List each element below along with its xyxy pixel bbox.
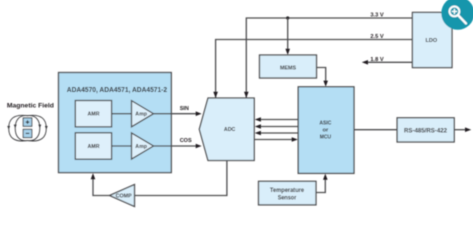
wire 2.5V rail (216, 40, 412, 99)
svg-text:MCU: MCU (320, 134, 331, 140)
wire COS: Amp2 to ADC (154, 145, 197, 147)
wire 1.8V output (367, 61, 412, 63)
block LDO (412, 12, 452, 67)
svg-text:SIN: SIN (180, 106, 189, 112)
wire AMR2 to Amp2 (112, 145, 132, 147)
svg-text:Amp: Amp (135, 144, 147, 150)
svg-text:RS-485/RS-422: RS-485/RS-422 (404, 128, 447, 135)
svg-text:3.3 V: 3.3 V (370, 13, 383, 19)
svg-text:COS: COS (180, 138, 192, 144)
svg-text:COMP: COMP (116, 193, 133, 199)
wire ADC data to ASIC (254, 139, 293, 141)
wire ASIC to ADC control 1 (259, 119, 298, 121)
wire 3.3V rail (246, 18, 412, 98)
svg-text:2.5 V: 2.5 V (370, 34, 383, 40)
wire SIN: Amp1 to ADC (154, 113, 197, 115)
block ADC (pentagon) (199, 98, 254, 161)
wire ASIC to ADC control 2 (259, 126, 298, 128)
wire AMR1 to Amp1 (112, 113, 132, 115)
zoom icon button (441, 0, 473, 30)
svg-text:ADA4570, ADA4571, ADA4571-2: ADA4570, ADA4571, ADA4571-2 (67, 85, 167, 94)
svg-text:1.8 V: 1.8 V (370, 57, 383, 63)
wire MEMS to ASIC (317, 68, 326, 82)
block Temperature Sensor (259, 181, 317, 205)
magnet field lines (9, 115, 47, 141)
block RS-485/RS-422 (397, 118, 454, 142)
magnet south pole square (23, 129, 32, 137)
svg-text:Magnetic Field: Magnetic Field (7, 102, 54, 109)
svg-text:AMR: AMR (88, 112, 100, 118)
block AMR 2 (75, 133, 111, 159)
magnet minus sign (26, 132, 30, 134)
svg-text:ASIC: ASIC (319, 120, 332, 126)
wire junction to MEMS (287, 18, 289, 50)
block MEMS (260, 55, 317, 78)
svg-text:MEMS: MEMS (280, 66, 296, 72)
block ADA4570/ADA4571 container (59, 73, 172, 173)
wire ASIC to ADC control 3 (259, 132, 298, 134)
comparator COMP (110, 185, 135, 207)
op-amp Amp 1 (132, 101, 154, 127)
svg-text:ADC: ADC (224, 127, 235, 133)
wire Temperature Sensor to ASIC (316, 179, 325, 193)
op-amp Amp 2 (132, 133, 154, 159)
svg-text:LDO: LDO (426, 38, 438, 44)
wire ASIC to RS-485 (354, 129, 397, 131)
svg-text:Temperature: Temperature (270, 187, 305, 194)
magnet north pole square (23, 118, 32, 126)
wire RS-485 output (454, 129, 466, 131)
node junction on 3.3V rail (286, 16, 289, 19)
magnet plus sign (26, 120, 30, 124)
wire ADC to COMP (135, 161, 227, 196)
block ASIC or MCU (298, 87, 354, 174)
svg-text:Amp: Amp (135, 112, 147, 118)
wire COMP to ADA container (93, 178, 110, 195)
svg-text:Sensor: Sensor (278, 195, 297, 202)
magnet field arrows (7, 125, 48, 130)
svg-text:AMR: AMR (88, 144, 100, 150)
svg-text:or: or (322, 127, 329, 133)
block AMR 1 (75, 101, 111, 127)
